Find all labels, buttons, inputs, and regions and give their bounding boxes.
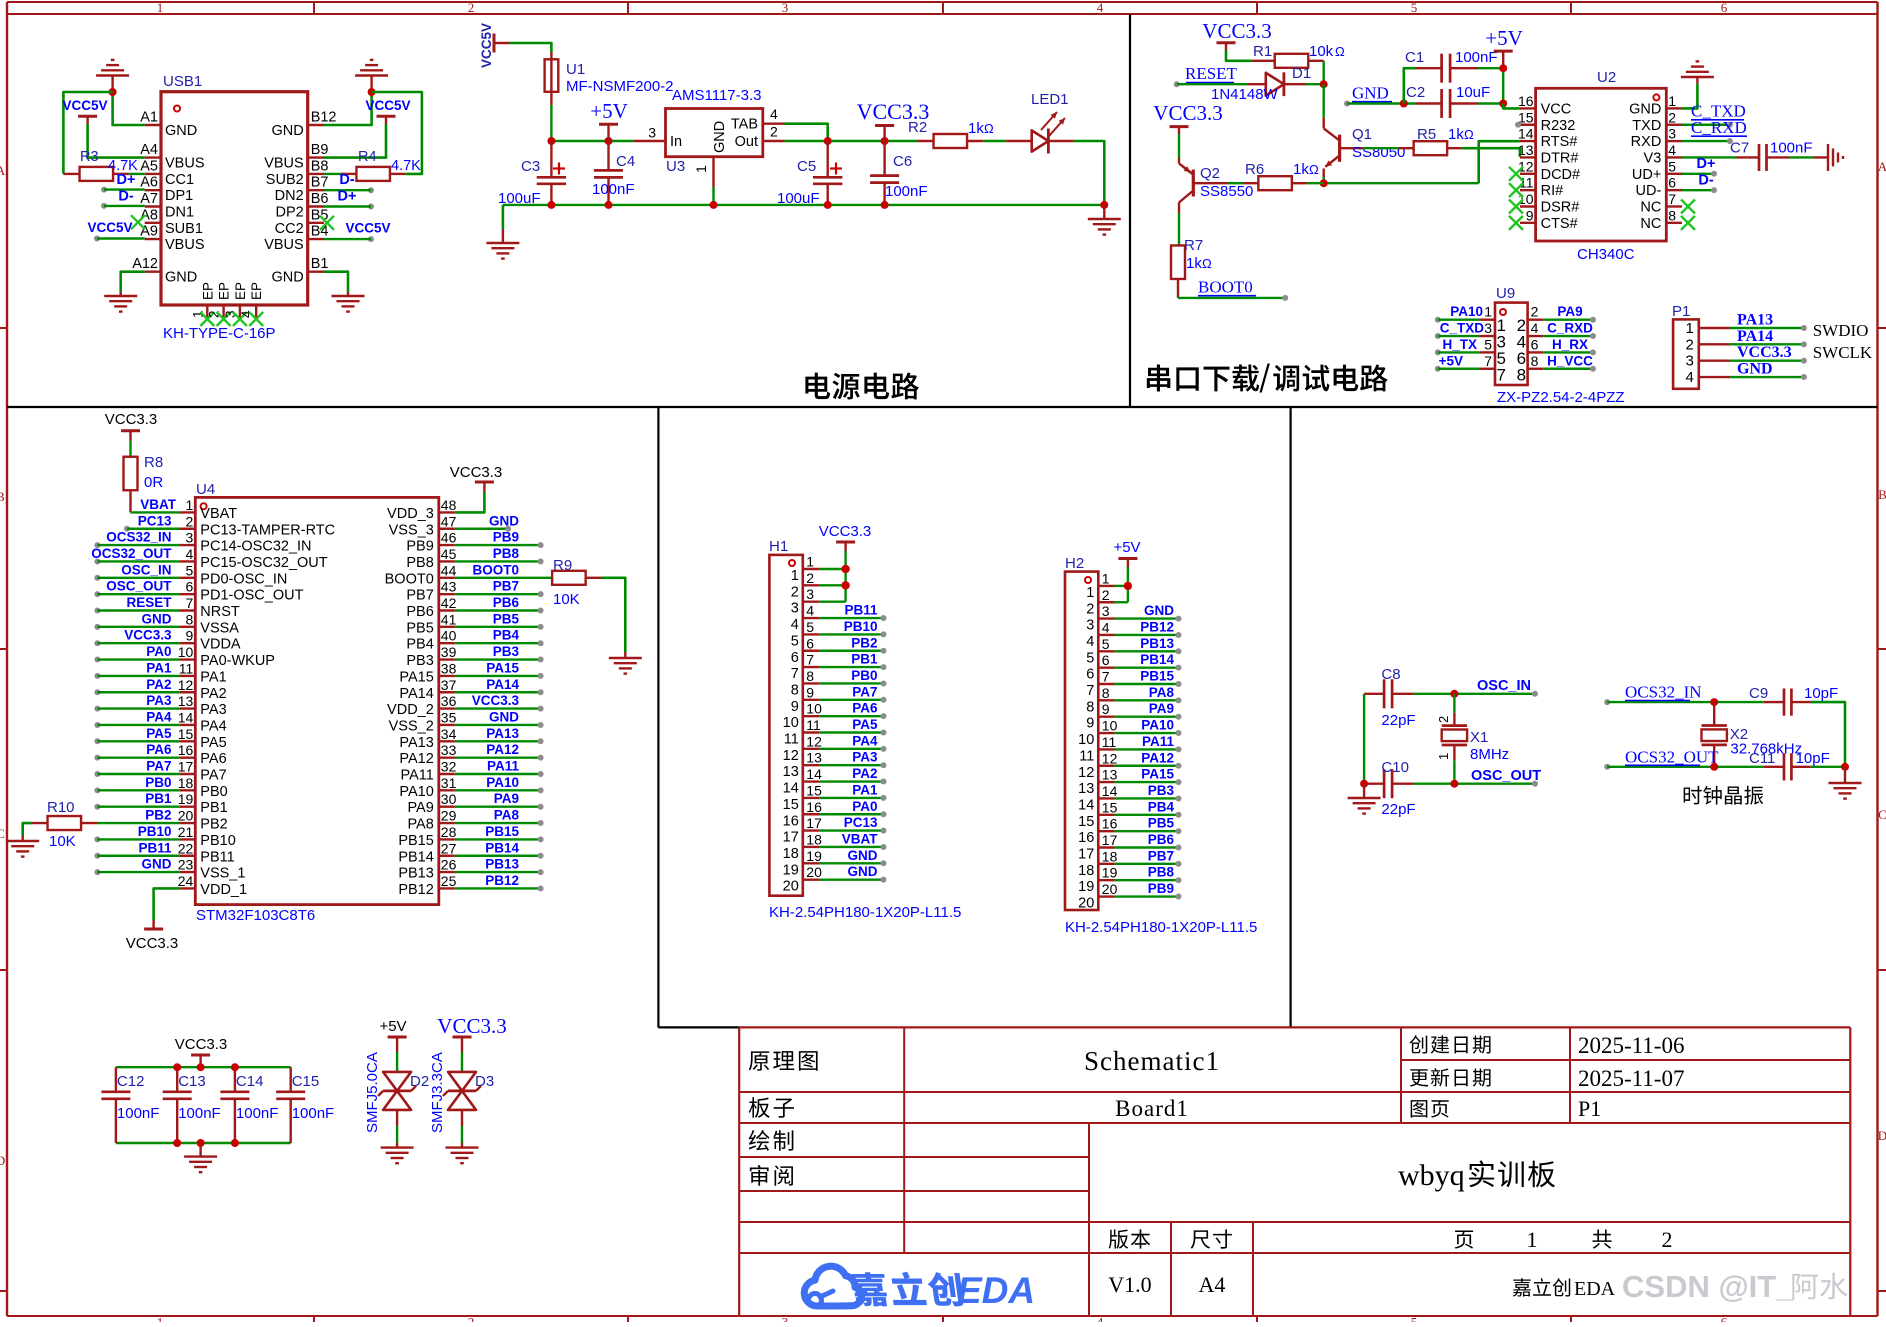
section divider horizontal — [7, 406, 1878, 408]
svg-text:19: 19 — [1078, 879, 1094, 895]
U4 pin 38 PA15 — [399, 660, 456, 685]
wire R6 to node — [1307, 182, 1324, 184]
U4 pin 16 PA6 — [178, 742, 227, 767]
svg-text:SMFJ3.3CA: SMFJ3.3CA — [429, 1052, 446, 1133]
svg-text:PA14: PA14 — [1737, 328, 1773, 345]
svg-text:PB11: PB11 — [138, 840, 172, 855]
svg-text:12: 12 — [783, 748, 799, 764]
section title 时钟晶振 — [1684, 786, 1702, 805]
net port RESET — [1174, 64, 1238, 87]
svg-text:PA15: PA15 — [399, 669, 433, 685]
svg-text:22: 22 — [178, 840, 194, 856]
crystal X1 — [1436, 694, 1467, 784]
svg-text:1: 1 — [806, 554, 814, 570]
wire H1 pin 13 — [819, 762, 886, 768]
wire GND rail to R3 — [63, 92, 112, 174]
svg-text:USB1: USB1 — [163, 73, 202, 90]
crystal X2 — [1702, 702, 1727, 767]
svg-text:1: 1 — [157, 1315, 164, 1323]
wire U2 V3 to C7 — [1682, 156, 1737, 158]
junction bottom rail C13 — [173, 1139, 181, 1147]
svg-text:PB5: PB5 — [1148, 816, 1175, 831]
H1 pin 16 — [783, 799, 822, 830]
svg-text:2025-11-06: 2025-11-06 — [1578, 1033, 1684, 1058]
H1 pin 10 — [783, 701, 822, 732]
svg-text:PA9: PA9 — [1149, 701, 1174, 716]
U9 pin 3 — [1479, 320, 1506, 352]
junction rail C6 — [881, 201, 889, 209]
svg-text:9: 9 — [1086, 716, 1094, 732]
H2 pin 4 — [1086, 619, 1114, 650]
power flag VCC3.3 (R1) — [1202, 19, 1271, 50]
svg-text:13: 13 — [783, 764, 799, 780]
svg-text:22pF: 22pF — [1381, 801, 1415, 818]
svg-text:100nF: 100nF — [1455, 49, 1498, 66]
frame row ticks left — [0, 327, 7, 329]
svg-text:TAB: TAB — [731, 117, 758, 133]
svg-text:4: 4 — [1097, 1315, 1104, 1323]
wire U2 RXD stub — [1682, 138, 1733, 144]
TVS diode D3 SMFJ3.3CA — [461, 1070, 463, 1073]
wire B4 VBUS stub — [324, 236, 374, 242]
svg-text:PA6: PA6 — [146, 742, 172, 757]
wire H1 pin 8 — [819, 680, 886, 686]
resistor R2 — [917, 134, 983, 148]
svg-text:VCC3.3: VCC3.3 — [819, 523, 872, 540]
svg-text:42: 42 — [441, 595, 457, 611]
power flag VCC3.3 (R8) — [105, 411, 158, 441]
svg-text:10: 10 — [178, 644, 194, 660]
svg-text:11: 11 — [806, 717, 821, 733]
wire +5V to D2 — [396, 1052, 398, 1071]
svg-text:P1: P1 — [1578, 1096, 1601, 1121]
svg-text:Ω: Ω — [1309, 162, 1319, 177]
svg-text:6: 6 — [1668, 175, 1676, 191]
svg-text:6: 6 — [1721, 1315, 1728, 1323]
svg-text:12: 12 — [806, 733, 822, 749]
power flag +5V (H2) — [1113, 539, 1140, 567]
wire D1 to Q1 collector — [1305, 83, 1324, 85]
junction C2 left — [1400, 100, 1408, 108]
svg-text:A1: A1 — [140, 110, 158, 126]
svg-text:PB14: PB14 — [398, 849, 433, 865]
USB1 pin B6 DP2 — [275, 191, 328, 221]
U3 pin 1 GND — [693, 121, 728, 187]
capacitor C6 — [870, 141, 899, 205]
H2 pin 6 — [1086, 652, 1114, 683]
svg-text:7: 7 — [1668, 191, 1676, 207]
svg-text:VCC5V: VCC5V — [345, 221, 390, 236]
U2 pin 15 R232 — [1518, 109, 1575, 134]
H1 pin 14 — [783, 766, 822, 797]
ground (USB1 B12) — [355, 60, 388, 89]
wire R5 to DTR# — [1462, 148, 1520, 157]
svg-text:11: 11 — [1079, 748, 1094, 764]
wire OSC_IN row — [1413, 693, 1535, 695]
svg-text:PB8: PB8 — [1148, 865, 1175, 880]
wire H2 pin 20 — [1115, 894, 1182, 900]
wire C2 branch up to C1 — [1404, 68, 1416, 103]
svg-text:V3: V3 — [1644, 150, 1662, 166]
svg-text:20: 20 — [806, 864, 822, 880]
svg-text:31: 31 — [441, 775, 457, 791]
U4 pin 9 VDDA — [179, 628, 241, 653]
svg-text:30: 30 — [441, 791, 457, 807]
svg-text:D-: D- — [1698, 172, 1713, 188]
junction top rail VCC — [197, 1063, 205, 1071]
svg-text:BOOT0: BOOT0 — [1198, 278, 1253, 297]
wire H2 pin 10 — [1115, 730, 1182, 736]
wire U4 pin 8 stub — [94, 624, 179, 630]
power flag VCC3.3 (H1) — [819, 523, 872, 551]
H1 pin 2 — [791, 570, 819, 601]
wire U4 pin 4 stub — [94, 558, 179, 564]
svg-text:EP: EP — [200, 282, 215, 300]
H1 pin 12 — [783, 733, 822, 764]
svg-text:2025-11-07: 2025-11-07 — [1578, 1066, 1684, 1091]
ground (D3) — [446, 1143, 479, 1163]
wire U4 pin 17 stub — [94, 771, 179, 777]
USB1 pin EP1 — [190, 282, 215, 318]
svg-text:GND: GND — [271, 123, 303, 139]
svg-text:Ω: Ω — [984, 121, 994, 136]
svg-text:14: 14 — [1078, 797, 1094, 813]
svg-text:PA4: PA4 — [200, 718, 226, 734]
wire U2 pin15 stub — [1515, 122, 1521, 128]
svg-text:VCC5V: VCC5V — [62, 98, 107, 113]
junction VCC3.3 node — [881, 137, 889, 145]
U4 pin 31 PA10 — [399, 775, 456, 800]
svg-text:2: 2 — [186, 513, 194, 529]
svg-text:Ω: Ω — [1202, 256, 1212, 271]
title 原理图 — [749, 1051, 769, 1070]
svg-text:DP2: DP2 — [275, 205, 303, 221]
wire H1 pin 6 — [819, 648, 886, 654]
svg-text:3: 3 — [186, 530, 194, 546]
wire U4 pin 11 stub — [94, 673, 179, 679]
power flag VCC3.3 (power section) — [857, 99, 930, 141]
H1 pin 3 — [791, 586, 819, 617]
svg-text:VDD_1: VDD_1 — [200, 882, 247, 898]
svg-text:2: 2 — [806, 570, 814, 586]
no-connect A8 SUB1 — [131, 215, 145, 229]
wire U4 pin 23 stub — [94, 869, 179, 875]
U4 pin 1 VBAT — [179, 497, 237, 522]
wire H2 pin 6 — [1115, 665, 1182, 671]
svg-text:PB5: PB5 — [406, 620, 433, 636]
U4 pin 26 PB13 — [398, 857, 456, 882]
svg-text:4: 4 — [1086, 634, 1094, 650]
svg-text:9: 9 — [806, 684, 814, 700]
svg-text:PB2: PB2 — [200, 817, 227, 833]
wire H2 pin 12 — [1115, 763, 1182, 769]
svg-text:VCC3.3: VCC3.3 — [1153, 101, 1222, 125]
wire U4 pin 30 stub — [455, 804, 544, 810]
wire decoupling top rail — [116, 1066, 291, 1068]
wire H1 pin 14 — [819, 779, 886, 785]
net port OCS32_IN — [1625, 683, 1702, 702]
svg-text:16: 16 — [806, 799, 822, 815]
wire Out to VCC3.3 rail — [785, 140, 918, 142]
wire OSC_OUT stub end — [1532, 781, 1538, 787]
svg-text:PA14: PA14 — [486, 677, 519, 692]
svg-text:SS8550: SS8550 — [1200, 183, 1253, 200]
svg-text:8: 8 — [1517, 365, 1526, 384]
svg-text:PA0: PA0 — [146, 644, 171, 659]
svg-text:PB6: PB6 — [406, 604, 433, 620]
wire U4 pin 42 stub — [455, 608, 544, 614]
resistor R7 — [1171, 245, 1185, 297]
svg-text:VCC5V: VCC5V — [479, 23, 494, 68]
wire U4 pin 21 stub — [94, 836, 179, 842]
U4 pin 43 PB7 — [406, 579, 456, 604]
P1 pin 3 — [1685, 353, 1730, 370]
wire U4 pin 16 stub — [94, 755, 179, 761]
U4 pin 29 PA8 — [407, 808, 456, 833]
svg-text:PB9: PB9 — [1148, 881, 1174, 896]
wire D3 to ground — [461, 1126, 463, 1143]
svg-text:36: 36 — [441, 693, 457, 709]
svg-text:PB15: PB15 — [485, 824, 519, 839]
U4 pin 22 PB11 — [178, 840, 235, 865]
title 页 1 共 2 — [1455, 1231, 1474, 1249]
svg-text:1: 1 — [1685, 320, 1693, 337]
svg-text:20: 20 — [1078, 896, 1094, 912]
wire +5V to H2 pins 1-2 — [1127, 567, 1129, 602]
no-connect U2 RI# — [1509, 183, 1523, 197]
wire U4 pin 34 stub — [455, 738, 544, 744]
wire GND rail to R4 — [372, 92, 422, 174]
wire H1 pin 1 — [819, 568, 846, 570]
svg-text:100nF: 100nF — [178, 1105, 221, 1122]
wire C1 to +5V node — [1478, 67, 1503, 69]
H2 pin 10 — [1078, 718, 1117, 749]
svg-text:7: 7 — [791, 666, 799, 682]
svg-text:PA6: PA6 — [852, 701, 878, 716]
svg-text:2: 2 — [1086, 601, 1094, 617]
junction rail C5 — [824, 201, 832, 209]
U4 pin 47 VSS_3 — [389, 513, 457, 538]
svg-text:OCS32_OUT: OCS32_OUT — [91, 546, 172, 561]
svg-text:D-: D- — [339, 172, 354, 188]
logo 嘉立创EDA text (blue) — [851, 1272, 889, 1306]
U4 pin 37 PA14 — [399, 677, 456, 702]
svg-text:VBAT: VBAT — [140, 497, 177, 512]
junction Q1 emitter / R6 — [1320, 179, 1328, 187]
svg-text:R7: R7 — [1184, 237, 1203, 254]
svg-text:PB9: PB9 — [406, 539, 433, 555]
svg-text:C6: C6 — [893, 153, 912, 170]
wire U4 pin 9 stub — [94, 640, 179, 646]
USB1 pin B1 GND — [271, 256, 328, 286]
svg-text:DN1: DN1 — [165, 205, 194, 221]
svg-text:GND: GND — [165, 270, 197, 286]
svg-text:PB12: PB12 — [1140, 619, 1174, 634]
U4 pin 40 PB4 — [406, 628, 456, 653]
wire U9 pin 2 stub — [1543, 317, 1596, 323]
wire H1 pin 12 — [819, 746, 886, 752]
svg-text:U2: U2 — [1597, 69, 1616, 86]
wire R3 to A5 CC1 — [129, 173, 145, 175]
svg-text:10K: 10K — [553, 591, 580, 608]
wire A12 GND — [121, 272, 145, 292]
svg-text:11: 11 — [179, 660, 194, 676]
capacitor C14 — [220, 1067, 249, 1143]
svg-text:GND: GND — [271, 270, 303, 286]
svg-text:4: 4 — [1668, 142, 1676, 158]
H2 pin 16 — [1078, 816, 1117, 847]
svg-text:OSC_IN: OSC_IN — [1477, 678, 1531, 694]
diode D1 1N4148W — [1248, 72, 1306, 96]
U2 pin 12 DCD# — [1518, 158, 1580, 183]
svg-text:16: 16 — [783, 813, 799, 829]
svg-text:8: 8 — [806, 668, 814, 684]
svg-text:PB12: PB12 — [485, 873, 519, 888]
wire U4 pin 18 stub — [94, 787, 179, 793]
svg-text:100nF: 100nF — [292, 1105, 335, 1122]
wire D2 to ground — [396, 1126, 398, 1143]
regulator U3 AMS1117-3.3 body — [666, 109, 763, 157]
USB1 pin A12 GND — [132, 256, 197, 286]
svg-text:DTR#: DTR# — [1541, 150, 1579, 166]
svg-text:PA5: PA5 — [852, 717, 878, 732]
svg-text:10uF: 10uF — [1456, 84, 1490, 101]
svg-text:PA9: PA9 — [407, 800, 433, 816]
wire U4 pin 7 stub — [94, 608, 179, 614]
svg-text:4: 4 — [770, 106, 778, 122]
no-connect EP4 — [249, 312, 263, 326]
svg-text:4: 4 — [806, 603, 814, 619]
wire H1 pin 7 — [819, 664, 886, 670]
svg-text:VCC3.3: VCC3.3 — [124, 628, 172, 643]
svg-text:4: 4 — [1685, 369, 1693, 386]
junction rail right — [1100, 201, 1108, 209]
wire U2 GND to ground — [1682, 84, 1697, 109]
U4 pin 35 VSS_2 — [389, 709, 457, 734]
wire U2 UD- stub — [1682, 187, 1717, 193]
section title 电源电路 — [805, 373, 830, 400]
svg-text:PB0: PB0 — [200, 784, 227, 800]
wire Q1 emitter node — [1322, 177, 1324, 183]
svg-text:17: 17 — [178, 759, 194, 775]
svg-text:VCC3.3: VCC3.3 — [1202, 19, 1271, 43]
U2 pin 2 TXD — [1632, 109, 1682, 134]
wire H1 pin 2 — [819, 584, 846, 586]
svg-text:100nF: 100nF — [592, 181, 635, 198]
capacitor C15 — [276, 1067, 305, 1143]
svg-text:C_TXD: C_TXD — [1440, 321, 1485, 336]
H1 pin 7 — [791, 652, 819, 683]
svg-text:PA13: PA13 — [486, 726, 519, 741]
svg-text:8: 8 — [1531, 353, 1539, 369]
H1 pin 8 — [791, 668, 819, 699]
svg-text:7: 7 — [806, 652, 814, 668]
USB1 pin A4 VBUS — [140, 142, 204, 172]
U3 pin 4 TAB — [731, 106, 785, 133]
svg-text:2: 2 — [468, 0, 475, 15]
wire A1 GND — [113, 88, 145, 125]
wire +5V column — [1502, 64, 1504, 104]
wire H1 pin 20 — [819, 877, 886, 883]
svg-text:100nF: 100nF — [117, 1105, 160, 1122]
USB1 pin B4 VBUS — [264, 224, 328, 254]
svg-text:PA0: PA0 — [852, 799, 877, 814]
svg-text:15: 15 — [1102, 799, 1118, 815]
wire U4 pin 41 stub — [455, 624, 544, 630]
svg-text:15: 15 — [1078, 814, 1094, 830]
svg-text:1k: 1k — [1293, 161, 1309, 178]
svg-text:D+: D+ — [1697, 156, 1716, 172]
svg-text:R4: R4 — [358, 149, 377, 165]
wire U9 pin 5 stub — [1435, 349, 1480, 355]
wire H1 pin 3 — [819, 601, 846, 603]
svg-text:C10: C10 — [1381, 759, 1409, 776]
U9 pin 2 — [1517, 304, 1544, 336]
svg-text:3: 3 — [1668, 126, 1676, 142]
TVS diode D2 SMFJ5.0CA — [396, 1070, 398, 1073]
resistor R3 — [63, 167, 128, 181]
svg-text:B7: B7 — [311, 175, 329, 191]
junction C2 right — [1499, 100, 1507, 108]
USB1 pin B7 DN2 — [275, 175, 329, 205]
ground (power rail left) — [486, 229, 519, 258]
U4 pin 30 PA9 — [407, 791, 456, 816]
svg-text:A4: A4 — [1199, 1272, 1226, 1297]
svg-text:PB11: PB11 — [844, 603, 878, 618]
svg-text:NC: NC — [1640, 216, 1661, 232]
U4 pin 19 PB1 — [178, 791, 228, 816]
U2 pin 10 DSR# — [1518, 191, 1579, 216]
net port GND (C2) — [1344, 84, 1392, 107]
svg-text:2: 2 — [1668, 109, 1676, 125]
svg-text:2: 2 — [1436, 716, 1451, 723]
wire U9 pin 7 stub — [1435, 366, 1480, 372]
capacitor C10 — [1364, 769, 1413, 798]
svg-text:R9: R9 — [553, 557, 572, 574]
H2 pin 15 — [1078, 799, 1117, 830]
svg-text:13: 13 — [806, 750, 822, 766]
svg-text:16: 16 — [1078, 830, 1094, 846]
wire RESET to D1 — [1177, 83, 1248, 85]
svg-text:B: B — [1878, 487, 1886, 502]
U4 pin 24 VDD_1 — [178, 873, 247, 898]
wire R2 to LED1 — [983, 140, 1006, 142]
capacitor C1 — [1415, 54, 1478, 83]
U2 pin 8 NC — [1640, 207, 1682, 232]
wire H2 pin 17 — [1115, 845, 1182, 851]
wire Q2 collector to R7 — [1178, 213, 1180, 246]
logo 嘉立创EDA cloud icon — [804, 1266, 861, 1306]
svg-text:ZX-PZ2.54-2-4PZZ: ZX-PZ2.54-2-4PZZ — [1497, 389, 1625, 406]
wire H2 pin 15 — [1115, 812, 1182, 818]
svg-text:A6: A6 — [140, 175, 158, 191]
svg-text:A8: A8 — [140, 207, 158, 223]
wire U4 pin 12 stub — [94, 689, 179, 695]
svg-text:EP: EP — [233, 282, 248, 300]
svg-text:H2: H2 — [1065, 555, 1084, 572]
wire H2 pin 14 — [1115, 795, 1182, 801]
junction X1 bottom — [1450, 780, 1458, 788]
capacitor C9 — [1764, 689, 1811, 716]
svg-text:C4: C4 — [616, 153, 635, 170]
svg-text:1: 1 — [1436, 753, 1451, 760]
junction X2 top — [1710, 698, 1718, 706]
svg-text:23: 23 — [178, 857, 194, 873]
USB1 pin B9 VBUS — [264, 142, 328, 172]
U4 pin 28 PB15 — [398, 824, 456, 849]
wire U2 TXD stub — [1682, 122, 1733, 128]
wire U4 pin 37 stub — [455, 689, 544, 695]
